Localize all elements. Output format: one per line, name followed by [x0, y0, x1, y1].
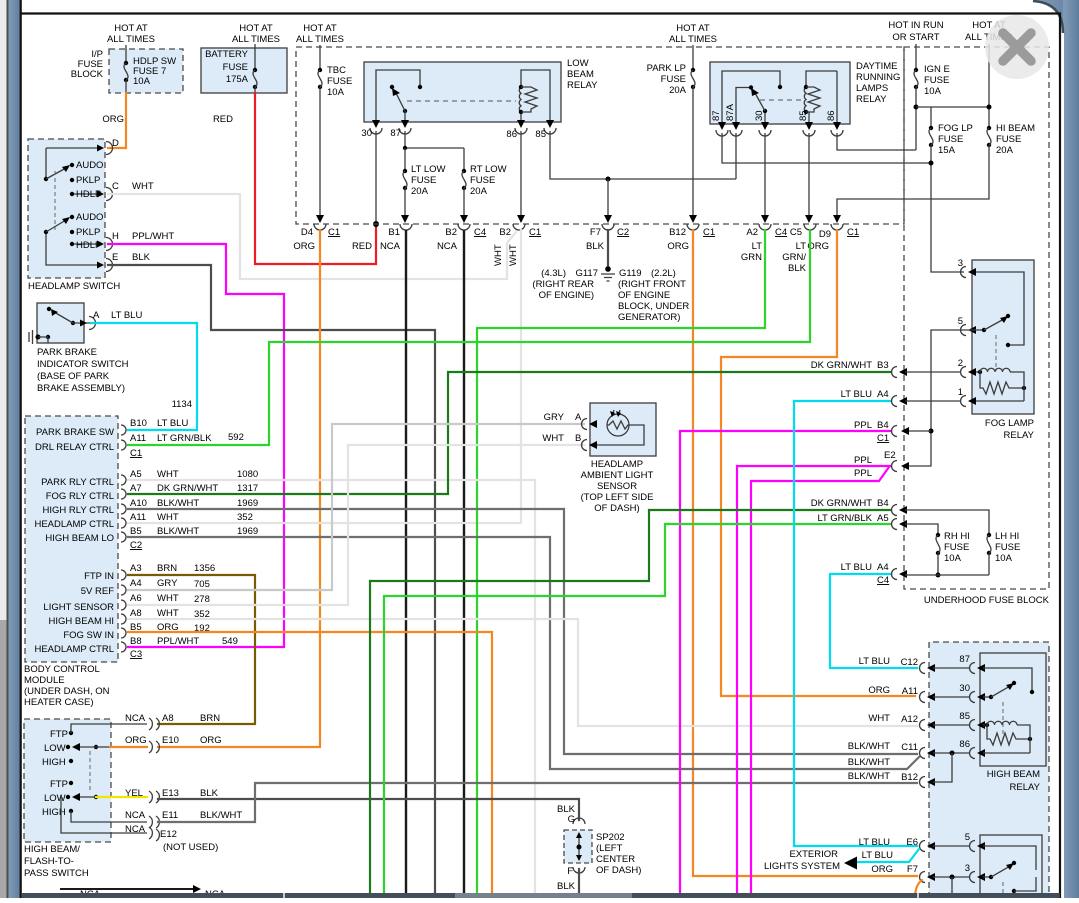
svg-text:1: 1 — [958, 387, 963, 398]
svg-text:GENERATOR): GENERATOR) — [618, 312, 680, 323]
header HOT IN RUN OR START — [888, 20, 943, 43]
label I/P FUSE BLOCK — [71, 49, 104, 80]
svg-text:HIGH BEAM HI: HIGH BEAM HI — [49, 616, 114, 627]
svg-text:A3: A3 — [130, 563, 142, 574]
svg-text:PPL: PPL — [854, 468, 872, 479]
label BODY CONTROL MODULE — [24, 664, 110, 708]
label PARK BRAKE INDICATOR SWITCH — [37, 347, 129, 394]
svg-text:C4: C4 — [474, 227, 486, 238]
svg-text:FUSE: FUSE — [661, 74, 686, 85]
svg-text:A8: A8 — [130, 608, 142, 619]
svg-text:HOT AT: HOT AT — [114, 23, 148, 34]
svg-text:RED: RED — [213, 114, 233, 125]
wire BLK/WHT B5 to C11 diagonal — [128, 537, 919, 769]
svg-text:BLK/WHT: BLK/WHT — [157, 526, 199, 537]
svg-text:PASS SWITCH: PASS SWITCH — [24, 868, 89, 879]
svg-text:WHT: WHT — [542, 433, 564, 444]
svg-text:LT BLU: LT BLU — [157, 418, 188, 429]
left outer grey margin — [0, 0, 7, 898]
svg-text:10A: 10A — [327, 87, 345, 98]
svg-text:YEL: YEL — [125, 788, 143, 799]
inline connector E10 — [125, 735, 222, 753]
svg-text:352: 352 — [237, 512, 253, 523]
svg-text:LT BLU: LT BLU — [859, 656, 890, 667]
svg-text:C2: C2 — [130, 540, 142, 551]
engine fuse block dashed box — [296, 47, 904, 224]
svg-text:AUDO: AUDO — [76, 212, 103, 223]
svg-text:592: 592 — [228, 432, 244, 443]
label FOG LAMP RELAY — [985, 418, 1035, 441]
svg-text:PKLP: PKLP — [76, 227, 100, 238]
svg-text:B2: B2 — [499, 227, 511, 238]
wire WHT A8 352 to A12 — [128, 619, 917, 726]
connector C — [97, 181, 154, 201]
svg-text:FUSE: FUSE — [944, 542, 969, 553]
wire WHT B2/C1 to BCM A11 — [128, 230, 521, 523]
svg-text:A4: A4 — [877, 562, 889, 573]
fuse BATTERY FUSE 175A — [253, 44, 257, 93]
close button — [985, 15, 1049, 79]
svg-text:HEATER CASE): HEATER CASE) — [24, 697, 94, 708]
DRL pin 86 — [826, 110, 843, 136]
wire feed to fuse 7 — [125, 45, 127, 63]
svg-text:FTP: FTP — [50, 729, 68, 740]
svg-text:A11: A11 — [130, 433, 146, 444]
svg-text:LAMPS: LAMPS — [856, 83, 888, 94]
svg-text:FOG LP: FOG LP — [938, 123, 973, 134]
svg-text:BLK: BLK — [788, 263, 807, 274]
svg-text:85: 85 — [959, 711, 970, 722]
svg-text:RED: RED — [352, 241, 372, 252]
svg-text:GRN/: GRN/ — [782, 252, 806, 263]
svg-text:DAYTIME: DAYTIME — [856, 61, 898, 72]
svg-text:HIGH: HIGH — [42, 807, 66, 818]
svg-text:E10: E10 — [162, 735, 179, 746]
svg-text:NCA: NCA — [380, 241, 401, 252]
svg-text:C1: C1 — [130, 448, 142, 459]
I/P fuse block dashed box — [109, 49, 183, 93]
svg-text:G119: G119 — [619, 268, 642, 279]
wire LT BLU A4/C4 to C12 — [830, 574, 917, 668]
svg-text:B10: B10 — [130, 418, 147, 429]
connector E6 — [859, 837, 969, 852]
fog relay pin5 to E2/B4 bus — [901, 330, 976, 470]
svg-text:B8: B8 — [130, 636, 142, 647]
label BATTERY FUSE 175A — [205, 49, 249, 85]
wire ORG B5 192 down — [128, 632, 492, 893]
fuse RT LOW FUSE 20A — [460, 148, 507, 223]
connector C12 — [859, 656, 969, 674]
svg-text:HIGH: HIGH — [42, 757, 66, 768]
svg-text:85: 85 — [535, 129, 546, 140]
svg-text:LOW: LOW — [44, 793, 66, 804]
svg-text:A: A — [93, 310, 100, 321]
svg-text:BLK: BLK — [586, 241, 605, 252]
svg-text:FUSE: FUSE — [938, 134, 963, 145]
wire PPL B4 down — [680, 431, 891, 893]
wire NCA B2 down — [463, 230, 465, 893]
svg-text:G117: G117 — [575, 268, 598, 279]
svg-text:B2: B2 — [445, 227, 457, 238]
svg-text:LT BLU: LT BLU — [859, 837, 890, 848]
svg-text:NCA: NCA — [437, 241, 458, 252]
svg-text:C4: C4 — [775, 227, 787, 238]
black frame border — [20, 0, 22, 898]
BCM pin A4 — [81, 578, 210, 597]
fuse IGN E FUSE 10A — [914, 44, 950, 150]
wire DK GRN/WHT A7 to fog relay B3 — [128, 372, 891, 494]
svg-text:C12: C12 — [901, 657, 918, 668]
svg-text:IGN E: IGN E — [924, 64, 950, 75]
svg-text:C1: C1 — [847, 227, 859, 238]
svg-text:FUSE: FUSE — [327, 76, 352, 87]
svg-text:(TOP LEFT SIDE: (TOP LEFT SIDE — [581, 492, 654, 503]
svg-text:AMBIENT LIGHT: AMBIENT LIGHT — [581, 470, 654, 481]
svg-text:PARK LP: PARK LP — [647, 63, 686, 74]
body control module dashed box — [25, 416, 118, 662]
wire ORG F7 exit stub — [915, 880, 922, 898]
svg-text:B5: B5 — [130, 526, 142, 537]
wire pin87 to LT/RT fuses — [405, 131, 464, 148]
svg-text:2: 2 — [958, 358, 963, 369]
svg-text:C1: C1 — [877, 433, 889, 444]
svg-text:A6: A6 — [130, 593, 142, 604]
svg-text:(2.2L): (2.2L) — [651, 268, 676, 279]
svg-text:705: 705 — [194, 579, 210, 590]
svg-text:PARK BRAKE SW: PARK BRAKE SW — [36, 427, 114, 438]
BCM pin B8 — [34, 636, 237, 660]
DRL pin 87 — [711, 110, 728, 136]
connector E2 — [854, 450, 897, 479]
FTP switch contacts group 1 — [42, 724, 147, 768]
svg-text:DK GRN/WHT: DK GRN/WHT — [157, 483, 218, 494]
fuse RH HI FUSE 10A — [936, 531, 970, 578]
svg-text:FOG LAMP: FOG LAMP — [985, 418, 1034, 429]
svg-text:20A: 20A — [669, 85, 687, 96]
headlamp switch internal wiring lower — [44, 212, 104, 265]
svg-text:BLK/WHT: BLK/WHT — [157, 498, 199, 509]
header HOT AT ALL TIMES (hi beam) — [965, 20, 1013, 43]
svg-text:C3: C3 — [130, 649, 142, 660]
svg-text:87: 87 — [711, 110, 722, 121]
svg-text:(LEFT: (LEFT — [596, 843, 623, 854]
svg-text:RELAY: RELAY — [1010, 782, 1041, 793]
svg-text:BLK/WHT: BLK/WHT — [200, 810, 242, 821]
svg-text:PARK BRAKE: PARK BRAKE — [37, 347, 97, 358]
connector F7 — [871, 864, 969, 898]
connector A4/C4 — [841, 562, 989, 586]
svg-text:10A: 10A — [995, 553, 1013, 564]
svg-text:278: 278 — [194, 594, 210, 605]
svg-text:LIGHTS SYSTEM: LIGHTS SYSTEM — [764, 861, 840, 872]
svg-text:BLK/WHT: BLK/WHT — [848, 771, 890, 782]
svg-text:1317: 1317 — [237, 483, 258, 494]
svg-text:WHT: WHT — [132, 181, 154, 192]
BCM pin A7 — [46, 483, 258, 502]
ground G117/G119 — [532, 266, 689, 323]
svg-text:HOT AT: HOT AT — [676, 23, 710, 34]
svg-text:(4.3L): (4.3L) — [541, 268, 566, 279]
inline connector A8 — [125, 713, 220, 730]
svg-text:20A: 20A — [996, 145, 1014, 156]
svg-text:BATTERY: BATTERY — [205, 49, 249, 60]
svg-text:B1: B1 — [388, 227, 400, 238]
svg-text:HIGH RLY CTRL: HIGH RLY CTRL — [43, 505, 114, 516]
wire ORG B12/C1 to F7 relay row — [693, 230, 917, 876]
wire LT BLU park brake to BCM B10 — [91, 323, 197, 430]
svg-text:BRN: BRN — [157, 563, 177, 574]
svg-text:LT: LT — [796, 241, 807, 252]
HB relay pin 86 — [959, 739, 1030, 759]
svg-text:EXTERIOR: EXTERIOR — [789, 849, 838, 860]
svg-text:E13: E13 — [162, 788, 179, 799]
svg-text:C2: C2 — [617, 227, 629, 238]
label HEADLAMP AMBIENT LIGHT SENSOR — [581, 459, 654, 514]
DRL pin 85 — [798, 110, 815, 136]
BCM pin A3 — [84, 563, 215, 582]
connector D4/C1 — [293, 224, 340, 252]
svg-text:5: 5 — [965, 832, 970, 843]
svg-text:GRY: GRY — [544, 412, 565, 423]
svg-text:ORG: ORG — [200, 735, 222, 746]
svg-text:HIGH BEAM/: HIGH BEAM/ — [24, 844, 80, 855]
svg-text:DK GRN/WHT: DK GRN/WHT — [811, 498, 872, 509]
fog relay pin 5 — [958, 314, 1010, 336]
wire NCA B1 down — [405, 230, 407, 893]
svg-text:BODY CONTROL: BODY CONTROL — [24, 664, 100, 675]
wire BRN A3 to FTP switch A8 — [128, 575, 255, 724]
wire DRL 86 to IGN E fuse — [837, 133, 916, 150]
EXT relay gang dashed — [1002, 882, 1004, 898]
connector D — [97, 138, 119, 155]
svg-text:PPL: PPL — [854, 455, 872, 466]
wire BLK/WHT E11 to B12 — [158, 783, 917, 822]
svg-text:87: 87 — [390, 128, 401, 139]
svg-text:A10: A10 — [130, 498, 147, 509]
wire WHT headlamp C to fuse block B2/C1 — [108, 194, 516, 279]
svg-text:WHT: WHT — [157, 512, 179, 523]
connector A11 — [868, 685, 969, 703]
svg-text:E: E — [112, 252, 118, 263]
svg-text:86: 86 — [506, 129, 517, 140]
svg-text:RELAY: RELAY — [1004, 430, 1035, 441]
connector F7/C2 — [586, 224, 629, 252]
svg-text:LT BLU: LT BLU — [862, 850, 893, 861]
svg-text:PPL: PPL — [854, 420, 872, 431]
wire RED battery fuse to junction B1 — [255, 93, 376, 264]
connector B3 — [811, 360, 960, 378]
svg-text:20A: 20A — [411, 186, 429, 197]
wire DK GRN/WHT B4 from below — [370, 510, 891, 893]
wire pin86 to B2/C1 — [517, 131, 525, 223]
svg-text:87A: 87A — [725, 103, 736, 121]
wire LT GRN A2/C4 down — [477, 230, 765, 893]
header HOT AT ALL TIMES (TBC) — [296, 23, 344, 45]
low beam relay pin 86 — [506, 120, 527, 140]
svg-text:30: 30 — [959, 683, 970, 694]
low beam relay pin 85 — [535, 120, 556, 140]
svg-text:1969: 1969 — [237, 526, 258, 537]
wire ORG fuse7 to headlamp switch D — [108, 93, 126, 148]
svg-text:ORG: ORG — [102, 114, 124, 125]
wire DRL 87A to 179 bus — [735, 133, 737, 179]
svg-text:A4: A4 — [877, 389, 889, 400]
fuse PARK LP FUSE 20A — [647, 45, 697, 223]
fuse LT LOW FUSE 20A — [401, 148, 446, 223]
connector B1 — [352, 224, 412, 252]
high beam relay dashed box — [929, 642, 1049, 898]
svg-text:(RIGHT REAR: (RIGHT REAR — [532, 279, 594, 290]
BCM pin A6 — [43, 593, 209, 613]
svg-text:BLOCK, UNDER: BLOCK, UNDER — [618, 301, 689, 312]
FTP switch contacts group 2 — [42, 779, 147, 833]
svg-text:D4: D4 — [301, 227, 313, 238]
svg-text:PKLP: PKLP — [76, 175, 100, 186]
HB relay pin 85 coil — [959, 711, 1032, 753]
svg-text:WHT: WHT — [157, 593, 179, 604]
fog relay gang dashed — [995, 335, 997, 371]
low beam relay pin 87 — [390, 120, 411, 139]
svg-text:BLK: BLK — [200, 788, 219, 799]
DRL pin 30 — [754, 110, 771, 136]
svg-text:FUSE: FUSE — [995, 542, 1020, 553]
svg-text:ORG: ORG — [667, 241, 689, 252]
svg-text:DRL RELAY CTRL: DRL RELAY CTRL — [35, 442, 114, 453]
svg-text:C4: C4 — [877, 575, 889, 586]
svg-text:E2: E2 — [884, 450, 896, 461]
inline connector E12 — [125, 824, 218, 853]
connector A12 — [868, 713, 969, 731]
svg-text:87: 87 — [959, 654, 970, 665]
HB relay pin 87 — [959, 654, 1032, 690]
sensor pin B — [542, 433, 597, 451]
underhood fuse block tall dashed box — [904, 47, 1049, 589]
svg-text:LT BLU: LT BLU — [841, 562, 872, 573]
svg-text:LT BLU: LT BLU — [841, 389, 872, 400]
svg-text:RELAY: RELAY — [856, 94, 887, 105]
fog relay pin 3 — [958, 258, 1024, 347]
connector B12 — [848, 753, 952, 788]
svg-text:GRY: GRY — [157, 578, 178, 589]
junction dot red at fuse block row — [373, 221, 379, 227]
fog relay pin 2 coil — [958, 358, 1026, 401]
svg-text:1134: 1134 — [172, 399, 192, 410]
label LOW BEAM RELAY — [567, 58, 598, 91]
label HIGH BEAM FLASH-TO-PASS SWITCH — [24, 844, 89, 879]
svg-text:MODULE: MODULE — [24, 675, 65, 686]
svg-text:1969: 1969 — [237, 498, 258, 509]
svg-text:86: 86 — [959, 739, 970, 750]
svg-text:HEADLAMP SWITCH: HEADLAMP SWITCH — [28, 281, 120, 292]
wire DRL 87 to fog fuse junction — [722, 133, 931, 163]
svg-text:A11: A11 — [130, 512, 146, 523]
fuse HI BEAM FUSE 20A — [833, 123, 1035, 223]
svg-text:WHT: WHT — [157, 469, 179, 480]
svg-text:OF DASH): OF DASH) — [594, 503, 639, 514]
svg-text:B: B — [575, 433, 581, 444]
headlamp switch dashed box — [28, 139, 105, 278]
svg-text:FOG RLY CTRL: FOG RLY CTRL — [46, 491, 114, 502]
svg-text:(BASE OF PARK: (BASE OF PARK — [37, 371, 110, 382]
svg-text:HOT AT: HOT AT — [303, 23, 337, 34]
svg-text:A12: A12 — [901, 714, 918, 725]
svg-text:E6: E6 — [906, 837, 918, 848]
wire ORG D9/C1 to high beam relay 30 — [721, 230, 915, 696]
svg-text:D9: D9 — [819, 229, 831, 240]
svg-text:FUSE: FUSE — [996, 134, 1021, 145]
svg-text:E12: E12 — [160, 829, 177, 840]
svg-text:85: 85 — [798, 110, 809, 121]
svg-text:15A: 15A — [938, 145, 956, 156]
svg-text:HIGH BEAM LO: HIGH BEAM LO — [45, 533, 114, 544]
svg-text:C1: C1 — [328, 227, 340, 238]
EXT relay pin 3 — [965, 861, 1036, 893]
svg-text:FUSE: FUSE — [223, 62, 248, 73]
wire BLK headlamp E down — [108, 265, 435, 893]
svg-text:RH HI: RH HI — [944, 531, 970, 542]
svg-text:30: 30 — [361, 128, 372, 139]
svg-text:ALL TIMES: ALL TIMES — [296, 34, 344, 45]
svg-text:ORG: ORG — [293, 241, 315, 252]
svg-text:SENSOR: SENSOR — [597, 481, 637, 492]
svg-text:ORG: ORG — [871, 864, 893, 875]
svg-text:FOG SW IN: FOG SW IN — [63, 630, 114, 641]
BCM pin B5 fog — [63, 622, 210, 641]
bottom toolbar — [22, 893, 1060, 898]
connector H — [97, 231, 174, 251]
wire WHT A5 1080 — [128, 480, 535, 893]
svg-text:C5: C5 — [790, 227, 802, 238]
svg-text:OF ENGINE: OF ENGINE — [618, 290, 670, 301]
svg-text:GRN: GRN — [741, 252, 762, 263]
svg-text:ORG: ORG — [868, 685, 890, 696]
wire YEL switch LOW2 to E13 — [96, 796, 147, 798]
wire LT GRN/BLK C5 to BCM A11 — [128, 230, 810, 445]
svg-text:10A: 10A — [133, 76, 151, 87]
svg-text:RELAY: RELAY — [567, 80, 598, 91]
BCM pin B5 hibeam — [45, 526, 258, 551]
svg-text:INDICATOR SWITCH: INDICATOR SWITCH — [37, 359, 129, 370]
wire LT GRN/BLK A5 from below — [384, 524, 891, 893]
svg-text:H: H — [112, 231, 119, 242]
svg-text:549: 549 — [222, 636, 238, 647]
header HOT AT ALL TIMES (I/P) — [107, 23, 155, 45]
svg-text:HOT IN RUN: HOT IN RUN — [888, 20, 943, 31]
BCM pin A8 — [49, 608, 210, 627]
HB relay pin 30 — [959, 681, 1034, 703]
connector A park brake — [80, 310, 142, 330]
wire PPL/WHT headlamp H to BCM B8 — [108, 244, 284, 647]
svg-text:5: 5 — [958, 316, 963, 327]
headlamp switch internal wiring upper — [44, 148, 104, 200]
svg-text:(RIGHT FRONT: (RIGHT FRONT — [618, 279, 686, 290]
header HOT AT ALL TIMES (park lp) — [669, 23, 717, 45]
battery fuse box — [201, 48, 287, 93]
svg-text:86: 86 — [826, 110, 837, 121]
connector B4 lower — [811, 498, 989, 535]
right blue panel strip — [1035, 0, 1079, 60]
svg-text:PARK RLY CTRL: PARK RLY CTRL — [41, 477, 114, 488]
svg-text:PPL/WHT: PPL/WHT — [132, 231, 174, 242]
svg-text:G: G — [568, 814, 575, 825]
sensor photocell — [594, 410, 644, 445]
connector E — [97, 252, 151, 272]
svg-text:FUSE: FUSE — [411, 175, 436, 186]
svg-text:CENTER: CENTER — [596, 854, 635, 865]
svg-text:ALL TIMES: ALL TIMES — [669, 34, 717, 45]
svg-text:A8: A8 — [162, 713, 174, 724]
svg-text:LT LOW: LT LOW — [411, 164, 446, 175]
